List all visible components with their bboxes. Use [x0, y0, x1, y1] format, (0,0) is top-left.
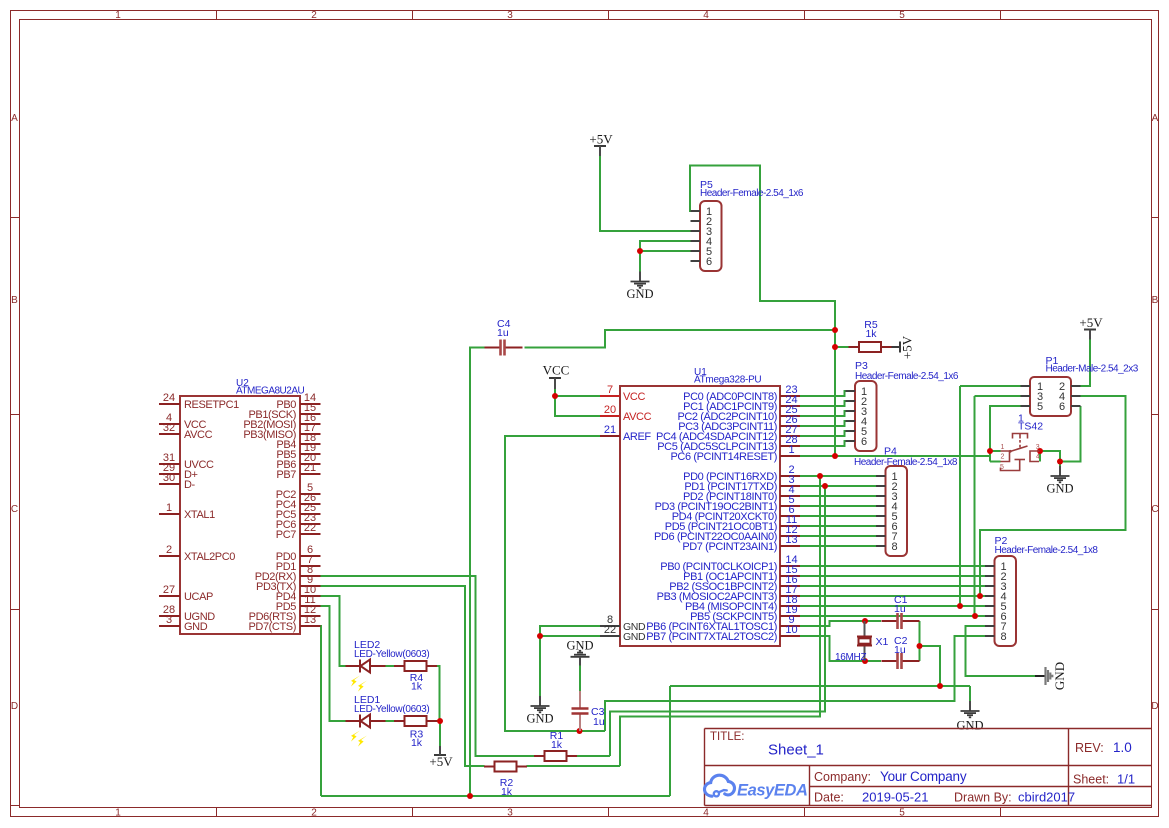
wire U1 PD1 to P4 pin2 [800, 485, 876, 487]
U1 pin 26 PC3 (ADC3PCINT11) [678, 414, 800, 433]
U2 pin 11 PD5 [276, 594, 321, 613]
U2 pin 10 PD4 [276, 584, 321, 603]
svg-text:PC6 (PCINT14RESET): PC6 (PCINT14RESET) [671, 451, 778, 463]
wire U1 PD6 to P4 pin7 [800, 535, 876, 537]
power flag VCC [543, 363, 570, 390]
P3 pin 1 [846, 386, 868, 398]
U1 pin 22 GND [600, 624, 646, 643]
IC U1 ATmega328-PU [620, 386, 780, 646]
U2 pin 15 PB1(SCK) [248, 402, 320, 421]
U2 pin 25 PC5 [276, 502, 321, 521]
svg-text:4: 4 [703, 10, 709, 21]
svg-text:21: 21 [304, 462, 316, 474]
svg-text:RESETPC1: RESETPC1 [184, 399, 239, 411]
U2 pin 30 D- [159, 472, 196, 491]
svg-text:LED-Yellow(0603): LED-Yellow(0603) [354, 649, 429, 660]
wire P5 GND drop [639, 251, 641, 272]
U2 pin 26 PC4 [276, 492, 321, 511]
title block [705, 729, 1152, 806]
svg-text:1: 1 [788, 444, 794, 456]
U2 pin 18 PB4 [276, 432, 320, 451]
resistor R4 1k [394, 661, 437, 671]
U1 pin 20 AVCC [600, 404, 652, 423]
svg-text:1k: 1k [501, 786, 513, 798]
U2 pin 29 D+ [159, 462, 198, 481]
wire R1 right lead [577, 755, 611, 757]
power flag +5V at P1 [1079, 315, 1103, 340]
svg-text:D: D [1151, 701, 1158, 712]
P5 pin 6 [691, 256, 713, 268]
ground GND inverted above C3 [566, 639, 593, 666]
wire U1 PC1 to P3 pin2 [800, 401, 846, 406]
wire C4 left to GND bottom rail [470, 348, 485, 797]
switch TS42 [1001, 434, 1040, 471]
wire PD1 junction down to R1 [610, 486, 825, 756]
svg-text:GND: GND [626, 287, 653, 301]
svg-text:GND: GND [956, 719, 983, 733]
wire U1 GND drop [539, 636, 541, 696]
svg-text:8: 8 [1001, 631, 1007, 643]
svg-text:16MHZ: 16MHZ [835, 652, 866, 663]
U2 pin 17 PB3(MISO) [243, 422, 320, 441]
U1 pin 4 PD2 (PCINT18INT0) [683, 484, 800, 503]
U1 pin 21 AREF [600, 424, 651, 443]
connector P1 Header-Male-2.54_2x3 [1030, 377, 1071, 416]
wire R2 right lead [527, 765, 621, 767]
wire switch pin3 to GND junction [1040, 451, 1060, 462]
svg-text:1: 1 [115, 10, 121, 21]
P5 pin 3 [691, 226, 713, 238]
U1 pin 5 PD3 (PCINT19OC2BINT1) [655, 494, 800, 513]
P2 pin 6 [985, 611, 1007, 623]
svg-text:2: 2 [311, 808, 317, 819]
P3 pin 4 [846, 416, 868, 428]
LED LED1 LED-Yellow(0603) [346, 715, 386, 728]
svg-text:VCC: VCC [623, 391, 645, 403]
U2 pin 27 UCAP [159, 584, 213, 603]
wire U2 pin13 drop [320, 626, 323, 796]
svg-text:7: 7 [607, 384, 613, 396]
svg-text:20: 20 [604, 404, 616, 416]
svg-text:PC7: PC7 [276, 529, 296, 541]
wire P1 pin1 row [960, 385, 1021, 387]
svg-text:Sheet_1: Sheet_1 [768, 742, 824, 759]
wire crystal bottom to C2 [865, 660, 881, 662]
U1 pin 24 PC1 (ADC1PCINT9) [683, 394, 800, 413]
junction rail/C4 [832, 327, 838, 333]
svg-text:1u: 1u [894, 644, 906, 656]
P5 pin 1 [691, 206, 713, 218]
wire U1 GND pin8 [540, 626, 600, 636]
svg-text:XTAL1: XTAL1 [184, 509, 215, 521]
ground GND under U1 [526, 696, 553, 726]
wire U2 pin8 to R1 left [321, 576, 536, 756]
wire P5 pin5 to GND junction [640, 250, 691, 252]
svg-text:2019-05-21: 2019-05-21 [862, 790, 929, 805]
svg-text:3: 3 [507, 808, 513, 819]
wire VCC flag to U1 pin7 [555, 389, 600, 397]
svg-text:3: 3 [166, 614, 172, 626]
svg-text:2: 2 [311, 10, 317, 21]
U1 pin 2 PD0 (PCINT16RXD) [683, 464, 800, 483]
power flag +5V at R5 (rotated) [891, 335, 915, 359]
svg-text:P4: P4 [884, 446, 897, 458]
svg-text:C: C [11, 504, 18, 515]
svg-text:+5V: +5V [429, 754, 453, 769]
svg-text:Header-Female-2.54_1x8: Header-Female-2.54_1x8 [995, 545, 1099, 556]
junction rail/R5 [832, 344, 838, 350]
U2 pin 16 PB2(MOSI) [243, 412, 320, 431]
resistor R3 1k [394, 716, 437, 726]
wire P2 pin7 to side GND [966, 626, 1036, 676]
resistor R1 1k [534, 751, 577, 761]
U2 pin 23 PC6 [276, 512, 321, 531]
svg-text:D: D [11, 701, 18, 712]
wire GND bottom run [321, 795, 670, 797]
P3 pin 6 [846, 436, 868, 448]
junction cap tie [917, 643, 923, 649]
U1 pin 17 PB3 (MOSIOC2APCINT3) [657, 584, 800, 603]
wire U1 PD5 to P4 pin6 [800, 525, 876, 527]
U1 pin 6 PD4 (PCINT20XCKT0) [672, 504, 800, 523]
ground GND sideways right [1035, 662, 1067, 690]
svg-text:PD7 (PCINT23AIN1): PD7 (PCINT23AIN1) [682, 541, 777, 553]
svg-text:1u: 1u [894, 603, 906, 615]
svg-text:1u: 1u [593, 716, 605, 728]
P4 pin 1 [876, 471, 898, 483]
P2 pin 2 [985, 571, 1007, 583]
svg-text:10: 10 [785, 624, 797, 636]
svg-text:6: 6 [1059, 401, 1065, 413]
capacitor C4 1u [485, 340, 523, 356]
resistor R2 1k [484, 762, 527, 772]
wire U2 pin11 to LED1 [321, 606, 346, 721]
junction C3 bottom [577, 728, 583, 734]
U2 pin 6 PD0 [276, 544, 321, 563]
svg-text:Drawn By:: Drawn By: [954, 791, 1012, 805]
svg-text:13: 13 [304, 614, 316, 626]
svg-text:PB7 (PCINT7XTAL2TOSC2): PB7 (PCINT7XTAL2TOSC2) [646, 631, 777, 643]
resistor R5 1k [849, 342, 892, 352]
wire switch pin4 tie [1039, 451, 1041, 462]
wire P1 pin3 to P2 pin6 [974, 396, 976, 616]
EasyEDA logo [704, 775, 807, 799]
wire rail C4 junction to R5 junction [834, 330, 836, 347]
wire U1 PC4 to P3 pin5 [800, 431, 846, 436]
U2 pin 4 VCC [159, 412, 206, 431]
svg-text:X1: X1 [876, 636, 889, 648]
U2 pin 9 PD3(TX) [256, 574, 320, 593]
P3 pin 3 [846, 406, 868, 418]
svg-text:1: 1 [1001, 444, 1005, 451]
ground GND bottom right [956, 701, 983, 733]
svg-text:1u: 1u [497, 327, 509, 339]
wire P1 pin6 to switch [1060, 406, 1081, 462]
U1 pin 27 PC4 (ADC4SDAPCINT12) [656, 424, 800, 443]
U2 pin 3 GND [159, 614, 208, 633]
svg-text:6: 6 [861, 436, 867, 448]
svg-text:AVCC: AVCC [184, 429, 213, 441]
wire C3 top lead to inverted GND [579, 665, 581, 691]
U2 pin 7 PD1 [276, 554, 321, 573]
svg-text:1k: 1k [865, 328, 877, 340]
svg-text:27: 27 [163, 584, 175, 596]
svg-text:Your Company: Your Company [880, 769, 967, 784]
U1 pin 1 PC6 (PCINT14RESET) [671, 444, 801, 463]
wire U1 PB7 to crystal bottom [800, 636, 865, 661]
svg-text:+5V: +5V [900, 335, 915, 359]
wire RESET to switch [835, 455, 990, 457]
svg-text:AREF: AREF [623, 431, 651, 443]
LED2 glow arrows [351, 676, 367, 692]
svg-text:Sheet:: Sheet: [1073, 773, 1109, 787]
U2 pin 12 PD6(RTS) [249, 604, 321, 623]
U1 pin 16 PB2 (SSOC1BPCINT2) [669, 574, 800, 593]
svg-text:B: B [11, 295, 18, 306]
junction crystal top [862, 618, 868, 624]
U2 pin 1 XTAL1 [159, 502, 215, 521]
wire C1/C2 right tie [919, 621, 921, 661]
wire switch GND drop [1059, 462, 1061, 467]
connector P4 Header-Female-2.54_1x8 [886, 466, 908, 556]
junction switch GND [1057, 459, 1063, 465]
svg-text:Date:: Date: [814, 791, 844, 805]
junction crystal bottom [862, 658, 868, 664]
svg-text:VCC: VCC [543, 363, 570, 378]
capacitor C3 1u (vertical) [572, 691, 589, 731]
wire U1 PD4 to P4 pin5 [800, 515, 876, 517]
wire crystal top to C1 [865, 620, 881, 622]
svg-text:Header-Female-2.54_1x6: Header-Female-2.54_1x6 [700, 188, 804, 199]
P2 pin 8 [985, 631, 1007, 643]
P4 pin 6 [876, 521, 898, 533]
svg-text:UCAP: UCAP [184, 591, 213, 603]
U2 pin 31 UVCC [159, 452, 214, 471]
svg-text:GND: GND [623, 631, 646, 643]
wire U1 PC2 to P3 pin3 [800, 411, 846, 416]
svg-text:1: 1 [115, 808, 121, 819]
svg-text:24: 24 [163, 392, 175, 404]
wire U2 pin9 to R2 left [321, 586, 485, 766]
wire +5V junction drop [439, 721, 441, 747]
wire U1 PC0 to P3 pin1 [800, 391, 846, 396]
svg-text:30: 30 [163, 472, 175, 484]
P3 pin 2 [846, 396, 868, 408]
U2 pin 28 UGND [159, 604, 215, 623]
svg-text:3: 3 [507, 10, 513, 21]
svg-text:5: 5 [899, 808, 905, 819]
junction U1 GND [537, 633, 543, 639]
P1 pin 5 [1021, 401, 1044, 413]
wire C4 right to rail [525, 330, 836, 348]
svg-text:GND: GND [1046, 482, 1073, 496]
capacitor C2 1u [882, 653, 920, 669]
wire GND rail left down [669, 686, 671, 796]
svg-text:A: A [1152, 113, 1159, 124]
P5 pin 4 [691, 236, 713, 248]
wire GND rail to GND symbol [969, 686, 971, 701]
U2 pin 8 PD2(RX) [255, 564, 321, 583]
U2 pin 13 PD7(CTS) [248, 614, 320, 633]
svg-text:+5V: +5V [1079, 315, 1103, 330]
U2 pin 20 PB6 [276, 452, 320, 471]
P4 pin 7 [876, 531, 898, 543]
svg-text:LED-Yellow(0603): LED-Yellow(0603) [354, 704, 429, 715]
U2 pin 2 XTAL2PC0 [159, 544, 235, 563]
wire LED2 to R4 [386, 665, 397, 667]
connector P2 Header-Female-2.54_1x8 [995, 556, 1017, 646]
ground GND under P5 [626, 272, 653, 302]
wire U1 PD2 to P4 pin3 [800, 495, 876, 497]
junction +5V R3/R4 [437, 718, 443, 724]
IC U2 ATMEGA8U2AU [180, 396, 300, 634]
wire VCC to U1 AVCC pin20 [555, 396, 600, 416]
P2 pin 4 [985, 591, 1007, 603]
connector P5 Header-Female-2.54_1x6 [700, 201, 722, 271]
svg-text:Header-Female-2.54_1x8: Header-Female-2.54_1x8 [854, 457, 958, 468]
wire U1 PB1 to P2 pin2 [800, 575, 985, 577]
svg-text:Company:: Company: [814, 770, 871, 784]
svg-text:8: 8 [892, 541, 898, 553]
wire +5V to P5 pin3 [600, 156, 691, 231]
wire P5 pin1 to C4/R5/RESET rail [690, 166, 835, 331]
svg-text:PD7(CTS): PD7(CTS) [248, 621, 296, 633]
svg-text:B: B [1152, 295, 1159, 306]
svg-text:ATMEGA8U2AU: ATMEGA8U2AU [236, 386, 304, 397]
wire U1 PD7 to P4 pin8 [800, 545, 876, 547]
ground GND under switch [1046, 466, 1073, 496]
svg-text:cbird2017: cbird2017 [1018, 790, 1075, 805]
svg-text:2: 2 [1001, 454, 1005, 461]
svg-text:GND: GND [184, 621, 208, 633]
wire R5 left [835, 346, 850, 348]
wire C3 bottom to P2 pin8 [605, 636, 985, 731]
wire LED1 to R3 [386, 720, 397, 722]
wire rail R5 junction to RESET net [834, 347, 836, 456]
junction P5 GND [637, 248, 643, 254]
wire U1 PD3 to P4 pin4 [800, 505, 876, 507]
P3 pin 5 [846, 426, 868, 438]
svg-text:5: 5 [899, 10, 905, 21]
U1 pin 14 PB0 (PCINT0CLKOICP1) [660, 554, 800, 573]
P1 pin 3 [1021, 391, 1044, 403]
U1 pin 8 GND [600, 614, 646, 633]
power flag +5V top [589, 132, 613, 157]
svg-text:GND: GND [526, 712, 553, 726]
svg-text:PB7: PB7 [276, 469, 296, 481]
junction C4/GND rail [467, 793, 473, 799]
svg-text:GND: GND [1052, 662, 1067, 690]
svg-text:Header-Female-2.54_1x6: Header-Female-2.54_1x6 [855, 371, 959, 382]
U1 pin 10 PB7 (PCINT7XTAL2TOSC2) [646, 624, 800, 643]
svg-text:32: 32 [163, 422, 175, 434]
junction MISO/P2.5 [957, 603, 963, 609]
LED LED2 LED-Yellow(0603) [346, 660, 386, 673]
svg-text:1k: 1k [411, 681, 423, 693]
U1 pin 23 PC0 (ADC0PCINT8) [683, 384, 800, 403]
svg-text:22: 22 [604, 624, 616, 636]
P1 pin 6 [1059, 401, 1081, 413]
svg-text:2: 2 [166, 544, 172, 556]
svg-text:AVCC: AVCC [623, 411, 652, 423]
wire U1 PB5 to P2 pin6 [800, 615, 985, 617]
svg-text:Header-Male-2.54_2x3: Header-Male-2.54_2x3 [1046, 364, 1139, 375]
svg-text:21: 21 [604, 424, 616, 436]
wire U1 PB0 to P2 pin1 [800, 565, 985, 567]
svg-text:1/1: 1/1 [1117, 772, 1135, 787]
svg-text:TS42: TS42 [1018, 421, 1043, 433]
wire U1 PC6 RESET [800, 455, 835, 457]
U2 pin 22 PC7 [276, 522, 321, 541]
wire P5 pin4 jog [640, 241, 691, 251]
wire GND rail horizontal [670, 685, 970, 687]
svg-text:EasyEDA: EasyEDA [737, 782, 808, 800]
svg-text:4: 4 [1036, 454, 1040, 461]
P2 pin 1 [985, 561, 1007, 573]
svg-text:5: 5 [1000, 464, 1004, 471]
U1 pin 13 PD7 (PCINT23AIN1) [682, 534, 800, 553]
wire cap tie to GND rail [920, 646, 941, 686]
P4 pin 3 [876, 491, 898, 503]
P5 pin 2 [691, 216, 713, 228]
wire P1 pin1 to P2 pin5 [959, 386, 961, 606]
junction RESET net [832, 453, 838, 459]
U1 pin 9 PB6 (PCINT6XTAL1TOSC1) [646, 614, 800, 633]
U2 pin 21 PB7 [276, 462, 320, 481]
wire P1 pin4 to P2 pin4 [980, 396, 1126, 596]
wire U1 PB6 to crystal top [800, 621, 865, 626]
wire U1 PB2 to P2 pin3 [800, 585, 985, 587]
svg-text:D-: D- [184, 479, 196, 491]
U1 pin 19 PB5 (SCKPCINT5) [690, 604, 800, 623]
LED1 glow arrows [351, 731, 367, 747]
svg-text:TITLE:: TITLE: [710, 731, 745, 743]
connector P3 Header-Female-2.54_1x6 [855, 381, 877, 451]
svg-text:A: A [11, 113, 18, 124]
wire R3 right to junction [437, 720, 441, 722]
svg-text:3: 3 [1036, 444, 1040, 451]
U1 pin 25 PC2 (ADC2PCINT10) [677, 404, 800, 423]
U2 pin 19 PB5 [276, 442, 320, 461]
svg-text:XTAL2PC0: XTAL2PC0 [184, 551, 235, 563]
P2 pin 7 [985, 621, 1007, 633]
svg-text:4: 4 [703, 808, 709, 819]
wire R4 right down to +5V [437, 666, 440, 721]
U2 pin 24 RESETPC1 [159, 392, 239, 411]
wire U2 pin10 to LED2 [321, 596, 346, 666]
wire U1 GND pin22 [540, 635, 600, 637]
capacitor C1 1u [882, 613, 920, 629]
svg-text:1.0: 1.0 [1113, 740, 1132, 755]
svg-text:5: 5 [1037, 401, 1043, 413]
U1 pin 11 PD5 (PCINT21OC0BT1) [665, 514, 800, 533]
P4 pin 2 [876, 481, 898, 493]
wire switch riser to P1 pin5 [990, 406, 1021, 462]
junction PD0/P4.1 [817, 473, 823, 479]
wire P1 pin2 to +5V [1081, 334, 1091, 386]
wire U1 PB3 to P2 pin4 [800, 595, 985, 597]
svg-text:ATmega328-PU: ATmega328-PU [694, 375, 761, 386]
wire switch pin1 stub [990, 450, 1001, 452]
P5 pin 5 [691, 246, 713, 258]
junction switch pin3 [1037, 448, 1043, 454]
svg-text:+5V: +5V [589, 132, 613, 147]
U2 pin 32 AVCC [159, 422, 213, 441]
svg-text:C: C [1151, 504, 1158, 515]
P4 pin 8 [876, 541, 898, 553]
P1 pin 2 [1059, 381, 1081, 393]
P2 pin 3 [985, 581, 1007, 593]
